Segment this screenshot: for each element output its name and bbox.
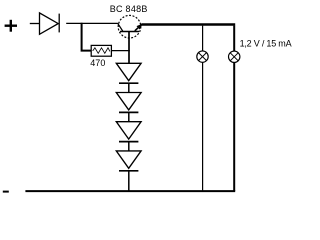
- wire: [202, 26, 204, 52]
- wire (emitter rail): [142, 23, 236, 25]
- wire: [233, 26, 235, 52]
- wire: [112, 50, 130, 52]
- svg-text:470: 470: [90, 58, 105, 68]
- wire: [128, 83, 130, 93]
- wire: [128, 171, 130, 191]
- plus terminal: [5, 20, 17, 32]
- transistor Q1 BC848B: [118, 15, 143, 38]
- resistor R1: [91, 45, 111, 56]
- wire: [66, 22, 118, 24]
- minus terminal: [3, 191, 9, 193]
- svg-text:1,2 V / 15 mA: 1,2 V / 15 mA: [240, 39, 292, 49]
- diode D1 (input): [40, 13, 60, 34]
- diode D4: [116, 122, 141, 142]
- diode D5: [116, 151, 141, 171]
- wire: [128, 142, 130, 152]
- lamp LA2: [229, 51, 240, 62]
- wire (junction drop to resistor): [82, 23, 92, 51]
- wire: [233, 62, 235, 191]
- diode D2: [116, 63, 141, 83]
- wire: [202, 62, 204, 190]
- diode D3: [116, 93, 141, 113]
- svg-text:BC 848B: BC 848B: [110, 4, 148, 14]
- wire: [128, 112, 130, 122]
- wire (base lead): [128, 32, 130, 64]
- lamp LA1: [197, 51, 208, 62]
- wire (bottom rail): [25, 190, 235, 192]
- wire: [30, 23, 40, 25]
